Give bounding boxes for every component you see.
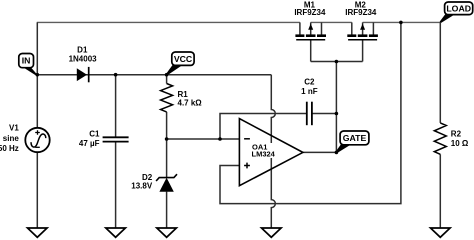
transistor M2: [347, 24, 378, 40]
wire C1 top lead: [115, 75, 117, 138]
ground (R2): [431, 228, 451, 237]
wire C2 right plate to gate column: [312, 113, 337, 115]
svg-text:IN: IN: [22, 56, 31, 66]
wire R1 bottom to minus node: [166, 112, 168, 139]
junction dot R1/VCC/main wire: [165, 73, 169, 77]
wire op-amp supply vertical with two hops: [271, 75, 275, 228]
ground (C1): [106, 228, 126, 237]
ground (V1): [28, 228, 48, 237]
wire C1 bottom lead to ground: [115, 142, 117, 229]
wire M2 source stub: [372, 22, 374, 34]
svg-text:47 µF: 47 µF: [79, 139, 100, 148]
wire minus node riser to C2 left wire: [220, 114, 307, 140]
svg-text:VCC: VCC: [174, 54, 193, 64]
node GATE label: [336, 131, 369, 153]
node LOAD label: [440, 2, 473, 23]
wire LOAD to R2 top: [439, 22, 441, 123]
svg-text:LM324: LM324: [252, 150, 276, 159]
wire M1 body stub: [310, 22, 312, 34]
wire M2 gate lead: [362, 40, 364, 62]
wire M2 body stub: [362, 22, 364, 34]
wire M1 drain stub: [299, 22, 301, 34]
svg-text:1N4003: 1N4003: [69, 55, 98, 64]
junction dot C1/main wire: [114, 73, 118, 77]
svg-text:LOAD: LOAD: [446, 4, 471, 14]
junction dot feedback riser / rail: [399, 21, 403, 25]
op-amp OA1: [239, 119, 303, 186]
wire M1 source stub: [321, 22, 323, 34]
svg-text:4.7 kΩ: 4.7 kΩ: [178, 98, 203, 107]
wire M2 drain stub: [351, 22, 353, 34]
wire gate column down to op-amp output: [335, 62, 337, 153]
svg-text:V1: V1: [9, 123, 19, 132]
svg-text:IRF9Z34: IRF9Z34: [345, 8, 377, 17]
junction dot op-amp output / gate: [335, 151, 339, 155]
junction dot R1 bottom / D2 / minus wire: [165, 137, 169, 141]
wire D2 bottom lead to ground: [166, 192, 168, 228]
wire IN node to V1 top: [36, 75, 38, 128]
source V1: [25, 128, 49, 152]
wire V1 bottom to ground: [36, 152, 38, 228]
svg-text:C2: C2: [304, 77, 315, 86]
transistor M1: [295, 24, 326, 40]
wire main horizontal IN-D1-VCC (y=74.7): [37, 74, 271, 76]
wire top rail run 2: [311, 21, 352, 23]
node IN label: [19, 54, 38, 76]
junction dot C2 right / gate column: [335, 112, 339, 116]
svg-text:1 nF: 1 nF: [301, 87, 318, 96]
svg-text:GATE: GATE: [343, 133, 367, 143]
junction dot gates: [335, 60, 339, 64]
junction dot minus riser: [218, 137, 222, 141]
resistor R2: [434, 123, 446, 154]
ground (op-amp V-): [262, 228, 282, 237]
svg-text:50 Hz: 50 Hz: [0, 144, 19, 153]
wire feedback: plus input, down, right, up to rail: [220, 22, 401, 203]
wire top rail run 1: [37, 21, 300, 23]
wire minus node horizontal to op-amp inverting input: [167, 138, 240, 140]
wire M1 gate lead: [310, 40, 312, 62]
node VCC label: [166, 52, 194, 76]
wire R1 top lead: [166, 75, 168, 84]
wire IN column up to rail: [36, 22, 38, 74]
wire op-amp output: [303, 151, 337, 153]
diode D1: [77, 67, 89, 82]
zener diode D2: [156, 174, 177, 192]
svg-text:R2: R2: [451, 130, 462, 139]
svg-text:sine: sine: [3, 134, 20, 143]
svg-text:IRF9Z34: IRF9Z34: [294, 8, 326, 17]
ground (D2): [157, 228, 177, 237]
svg-text:13.8V: 13.8V: [131, 182, 153, 191]
wire D2 top lead: [166, 139, 168, 177]
wire gates joining horizontal: [311, 61, 363, 63]
resistor R1: [161, 84, 173, 112]
junction dot IN node: [36, 73, 40, 77]
svg-text:D1: D1: [77, 45, 88, 54]
wire R2 bottom to ground: [439, 154, 441, 228]
svg-text:10 Ω: 10 Ω: [451, 139, 469, 148]
svg-text:C1: C1: [89, 130, 100, 139]
wire top rail run 3: [363, 21, 441, 23]
capacitor C2: [307, 102, 312, 126]
capacitor C1: [103, 137, 129, 141]
